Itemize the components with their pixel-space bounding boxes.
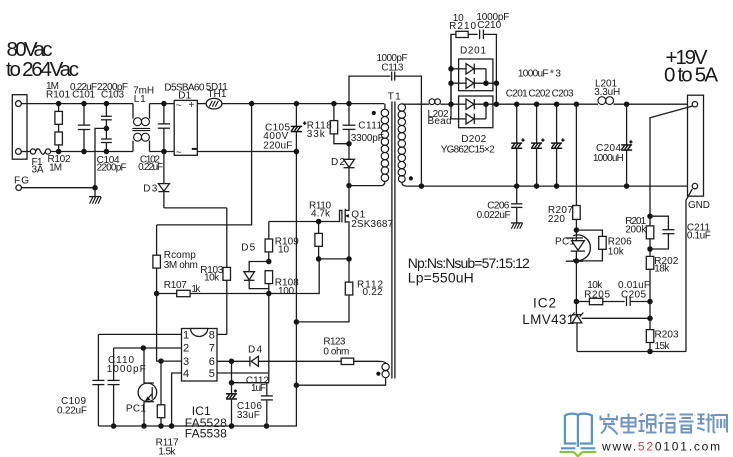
bridge rectifier D1 D5SBA60 (164, 83, 204, 159)
wire gate line R109 top to Q1 gate (269, 210, 342, 221)
capacitor C201 (511, 104, 524, 186)
wire R103 to IC1 pin 8 (217, 333, 227, 335)
svg-text:3M ohm: 3M ohm (164, 260, 198, 271)
wire C103/C104 midpoint to ground (95, 128, 106, 187)
thermistor TH1 5D11 (206, 82, 228, 109)
node junction (231.5,382.7) (229, 380, 235, 386)
capacitor C111 3300pF (343, 104, 384, 144)
svg-text:2: 2 (183, 343, 189, 355)
node junction (268.8,293.5) (266, 291, 272, 297)
svg-text:0 ohm: 0 ohm (323, 347, 349, 358)
svg-text:Lp=550uH: Lp=550uH (408, 270, 474, 286)
watermark logo book icon (561, 414, 595, 449)
resistor R207 220 (548, 104, 580, 230)
node junction (143.3,348) (141, 345, 147, 351)
wire drain node to primary bottom (349, 181, 385, 185)
resistor R102 1M (48, 132, 71, 173)
diode D4 (248, 344, 341, 366)
inductor L201 3.3uH (594, 78, 687, 104)
anode line D201/D202 (450, 34, 452, 119)
diode D5 (241, 243, 269, 289)
wire bottom rail L1 to D1 (150, 151, 175, 153)
node junction (516.7,104.2) (514, 101, 520, 107)
wire control ground to aux return (266, 385, 296, 426)
rectifier D202 YG862C15x2 (441, 96, 497, 155)
optocoupler PC1 phototransistor (126, 348, 157, 426)
node junction (451,68.8) (448, 66, 454, 72)
svg-text:+: + (189, 100, 195, 111)
svg-text:1M: 1M (49, 162, 62, 173)
wire top rail TH1 to transformer (222, 103, 384, 105)
svg-text:R210: R210 (449, 21, 476, 32)
wire D3 to R103 branch (164, 207, 227, 209)
capacitor C211 0.1uF (650, 216, 711, 249)
node junction (576.4,104.2) (574, 101, 580, 107)
resistor R206 10k (576, 230, 632, 261)
node junction (349,185.6) (346, 183, 352, 189)
capacitor C101 0.22uF (70, 82, 97, 152)
wire FG to ground node (22, 187, 96, 189)
svg-text:R101: R101 (46, 89, 70, 100)
svg-text:to 264Vac: to 264Vac (6, 58, 79, 81)
wire +19V rail D202 to L201 (496, 103, 598, 105)
secondary polarity dot (409, 176, 413, 180)
watermark green base (560, 452, 597, 456)
node junction (421.4,186.1) (419, 183, 425, 189)
svg-text:7: 7 (209, 343, 215, 355)
core (391, 102, 393, 379)
capacitor C205 0.01uF (618, 280, 650, 306)
svg-text:C203: C203 (552, 89, 574, 100)
node junction (650,216.2) (647, 213, 653, 219)
svg-text:1uF: 1uF (251, 383, 266, 394)
svg-text:3: 3 (183, 356, 189, 368)
capacitor C109 0.22uF (57, 334, 104, 426)
svg-text:R203: R203 (655, 329, 679, 340)
node junction (163.9,103.6) (161, 101, 167, 107)
node junction (251.6,103.6) (249, 101, 255, 107)
capacitor C203 (551, 104, 564, 186)
svg-text:3.3uH: 3.3uH (594, 87, 620, 98)
node junction (171.6,426) (169, 423, 175, 429)
node junction (333.9,103.6) (331, 101, 337, 107)
svg-text:D2: D2 (331, 157, 345, 168)
transistor Q1 2SK3687 (342, 186, 394, 259)
svg-text:R205: R205 (584, 290, 610, 301)
svg-text:220: 220 (548, 214, 565, 225)
node junction (95,187.7) (92, 185, 98, 191)
svg-text:C205: C205 (621, 290, 646, 301)
svg-text:C111: C111 (358, 121, 382, 132)
secondary winding (402, 103, 406, 105)
wire R107 to R110 bottom jog (190, 259, 319, 294)
wire IC1 pin4 (172, 373, 182, 426)
primary polarity dot (372, 111, 376, 115)
node junction (161,426) (158, 423, 164, 429)
svg-text:200k: 200k (625, 224, 647, 235)
capacitor C112 1uF (246, 375, 273, 426)
resistor R108 100 (265, 271, 299, 297)
svg-text:C210: C210 (477, 20, 501, 31)
svg-text:L1: L1 (134, 94, 146, 105)
resistor R201 200k (625, 216, 654, 256)
svg-text:1: 1 (183, 329, 189, 341)
wire IC1 pin2 to C110 (114, 347, 182, 349)
wire riser D4 node to R108 rail (268, 294, 270, 383)
node junction (650,318.3) (647, 316, 653, 322)
svg-text:www.520101.com: www.520101.com (601, 440, 722, 454)
node junction (113.6,426) (111, 423, 117, 429)
svg-text:C202: C202 (528, 89, 550, 100)
node junction (556.6,104.2) (554, 101, 560, 107)
svg-text:D4: D4 (248, 344, 262, 355)
svg-text:FG: FG (14, 176, 29, 187)
wire D1 to TH1 (197, 103, 206, 105)
wire top rail L1 to D1 (150, 103, 175, 105)
svg-text:0.22uF: 0.22uF (138, 162, 163, 173)
node junction (156.6,293.5) (154, 291, 160, 297)
node junction (576.4,260.9) (574, 258, 580, 264)
ground (secondary) (511, 223, 523, 229)
resistor Rcomp 3M ohm (153, 225, 198, 294)
wire IC1 pin5 (217, 372, 269, 374)
wire startup branch from top rail down and to Rcomp (157, 104, 252, 225)
output connector J2 (688, 95, 704, 196)
svg-text:C101: C101 (72, 89, 95, 100)
IC1 FA5528/FA5538 (182, 329, 228, 441)
node junction (268.8,261.5) (266, 259, 272, 265)
svg-text:3A: 3A (32, 165, 44, 176)
snubber R210 10 (449, 13, 478, 104)
resistor R110 4.7k (309, 200, 331, 259)
resistor R123 0ohm (323, 337, 378, 365)
node junction (318.6,221.5) (316, 219, 322, 225)
wire C106 link (232, 382, 269, 384)
resistor R101 1M (46, 81, 70, 132)
node junction (106.4,103.6) (104, 101, 110, 107)
svg-text:33k: 33k (307, 129, 326, 140)
node junction (296.4,103.6) (294, 101, 300, 107)
svg-text:D3: D3 (143, 183, 157, 194)
svg-text:R107: R107 (164, 280, 187, 291)
wire PC1 cathode down to R205 node (575, 261, 577, 315)
resistor R103 10k (200, 208, 230, 335)
svg-text:D5: D5 (241, 243, 255, 254)
FG terminal (14, 176, 29, 191)
aux winding (296, 361, 389, 385)
node junction (536.6,104.2) (534, 101, 540, 107)
svg-text:33uF: 33uF (237, 410, 260, 421)
rectifier D201 (451, 46, 496, 91)
svg-text:LMV431: LMV431 (522, 312, 574, 327)
svg-text:~: ~ (176, 101, 182, 112)
svg-text:FA5538: FA5538 (185, 427, 227, 441)
input connector J1 (12, 95, 27, 160)
svg-text:2200pF: 2200pF (97, 162, 127, 173)
watermark chinese text (601, 414, 728, 435)
wire GND sense riser (686, 189, 692, 352)
capacitor C103 2200pF (97, 82, 128, 128)
svg-text:YG862C15×2: YG862C15×2 (441, 144, 495, 155)
svg-text:0.22uF: 0.22uF (57, 406, 87, 417)
node junction (231.5,426) (229, 423, 235, 429)
svg-text:4: 4 (183, 368, 189, 380)
node junction (231.5,361.3) (229, 359, 235, 365)
node dots R101 column (56, 101, 62, 107)
svg-text:PC1: PC1 (555, 237, 575, 248)
diode D2 (331, 144, 355, 186)
capacitor C110 1000pF (107, 348, 146, 426)
svg-text:10k: 10k (608, 247, 625, 258)
svg-text:IC2: IC2 (533, 296, 556, 311)
resistor R109 10 (265, 222, 299, 262)
resistor R118 33k (307, 104, 349, 144)
node junction (576.4,230.1) (574, 227, 580, 233)
wire IC1 pin8 branch done above; pin6 wire with D4 (217, 360, 250, 362)
wire bottom rail connector to fuse (21, 151, 30, 153)
svg-text:3300pF: 3300pF (351, 133, 384, 144)
svg-text:0.22: 0.22 (363, 287, 383, 298)
capacitor C106 33uF (226, 361, 262, 426)
node junction (650,301.5) (647, 299, 653, 305)
svg-text:100: 100 (278, 286, 294, 297)
svg-text:C103: C103 (101, 89, 124, 100)
svg-text:1000uF * 3: 1000uF * 3 (518, 69, 561, 80)
common-mode choke L1 7mH (132, 85, 154, 151)
svg-text:18k: 18k (654, 264, 670, 275)
node junction (626.6,186.1) (624, 183, 630, 189)
svg-text:Bead: Bead (428, 116, 452, 127)
svg-text:C201: C201 (506, 89, 528, 100)
node junction (650,351.5) (647, 349, 653, 355)
capacitor C113 1000pF Y-cap (349, 53, 421, 186)
svg-text:TH1: TH1 (207, 89, 226, 100)
snubber capacitor C210 1000pF (476, 12, 509, 104)
svg-text:220uF: 220uF (263, 140, 292, 151)
capacitor C105 400V 220uF (263, 104, 306, 386)
wire top rail from connector to L1 (21, 103, 133, 105)
svg-text:GND: GND (688, 200, 710, 211)
wire secondary bottom rail (407, 185, 693, 187)
svg-text:10: 10 (278, 244, 289, 255)
resistor R112 0.22 (296, 259, 383, 322)
resistor R107 1k (157, 280, 202, 296)
svg-text:D202: D202 (461, 134, 486, 145)
svg-text:0.1uF: 0.1uF (687, 231, 711, 242)
svg-text:8: 8 (209, 329, 215, 341)
node junction (650,249) (647, 246, 653, 252)
svg-text:1.5k: 1.5k (158, 446, 176, 457)
wire Rcomp node down to pin3 (157, 294, 182, 362)
svg-text:C113: C113 (381, 63, 403, 74)
svg-text:D1: D1 (178, 90, 191, 101)
shunt regulator IC2 LMV431 (522, 296, 583, 352)
wire feedback bottom rail (577, 351, 686, 353)
resistor R202 18k (646, 256, 678, 330)
optocoupler PC1 LED (555, 230, 590, 261)
primary winding (384, 104, 386, 110)
wire IC1 pin3 (158, 358, 164, 364)
svg-text:D201: D201 (460, 46, 486, 57)
wire +19V sense tap diagonal (650, 106, 692, 226)
node junction (144,426) (141, 423, 147, 429)
svg-text:1000pF: 1000pF (107, 364, 146, 375)
svg-text:~: ~ (176, 148, 182, 159)
node junction (378.4,373.7) (376, 372, 380, 376)
svg-text:1000uH: 1000uH (593, 153, 624, 164)
svg-text:T1: T1 (388, 91, 401, 102)
diode D3 (143, 152, 169, 208)
fuse F1 3A (30, 149, 50, 176)
ground (primary earth) (89, 188, 101, 204)
capacitor C202 (531, 104, 544, 186)
svg-text:0 to 5A: 0 to 5A (664, 63, 718, 86)
node junction (84,103.6) (81, 101, 87, 107)
wire R110 bottom to Q1 source (319, 258, 349, 260)
resistor R117 1.5k (156, 361, 179, 457)
capacitor C204 1000uH (593, 104, 633, 186)
wire D1 negative out to C105 column (197, 151, 296, 153)
transformer T1 (372, 91, 413, 378)
svg-text:2SK3687: 2SK3687 (351, 219, 393, 230)
capacitor C206 0.022uF (477, 186, 523, 223)
svg-text:4.7k: 4.7k (311, 208, 331, 219)
svg-text:PC1: PC1 (126, 403, 146, 414)
bead inductor L202 (406, 99, 452, 127)
resistor R203 15k (646, 329, 679, 352)
resistor R205 10k (576, 280, 624, 305)
watermark url (601, 440, 722, 454)
svg-text:15k: 15k (655, 341, 671, 352)
svg-text:6: 6 (209, 356, 215, 368)
wire LMV431 ref (582, 317, 650, 319)
node junction (349,258.9) (346, 256, 352, 262)
capacitor C102 0.22uF (138, 104, 170, 173)
node junction (576.4,301.5) (574, 299, 580, 305)
wire bottom rail fuse to L1 (51, 151, 133, 153)
wire IC1 pin1 to C109 (98, 333, 181, 335)
svg-text:0.022uF: 0.022uF (477, 210, 511, 221)
wire control ground rail (98, 425, 266, 427)
svg-text:5: 5 (209, 368, 215, 380)
capacitor C104 2200pF (97, 128, 127, 173)
node junction (349,103.6) (346, 101, 352, 107)
svg-text:10k: 10k (204, 273, 220, 284)
